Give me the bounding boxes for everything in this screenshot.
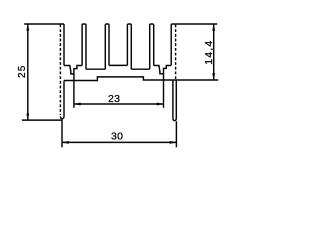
right screw-slot groove <box>154 66 172 74</box>
dim 23 extension line right <box>163 74 165 108</box>
right mounting foot <box>173 80 176 121</box>
svg-text:14,4: 14,4 <box>203 40 215 65</box>
channel floor 3 <box>131 68 149 70</box>
fin F4 <box>150 24 154 69</box>
dim 14.4 arrow up <box>212 24 215 31</box>
svg-text:30: 30 <box>111 131 123 143</box>
base bottom outline with raised middle <box>64 77 173 81</box>
fin F3 <box>127 24 131 69</box>
fin F1 <box>82 24 86 69</box>
svg-text:25: 25 <box>17 64 28 78</box>
dim 23 line <box>74 103 164 105</box>
dim 14.4 top extension line <box>175 23 217 25</box>
dim 30 line <box>62 141 176 143</box>
dim 14.4 arrow down <box>212 73 215 80</box>
dim 30 extension line right <box>175 121 177 147</box>
fin F5 (cut) <box>171 24 175 66</box>
dim 14.4 bottom extension line <box>173 79 218 81</box>
dim 25 top extension line / profile top-left <box>24 23 64 25</box>
left wall right edge <box>63 24 65 66</box>
fin F2 <box>105 24 109 69</box>
dim 30 extension line left <box>61 119 63 147</box>
left cut face (dashed) <box>59 25 61 116</box>
channel floor 2 <box>109 64 127 66</box>
right cut face (dashed) <box>175 25 177 81</box>
dim 23 arrow right <box>157 103 164 106</box>
dim 23 arrow left <box>74 103 81 106</box>
dim 30 arrow right <box>170 141 177 144</box>
dim 25 arrow down <box>27 114 30 121</box>
svg-text:23: 23 <box>108 93 120 105</box>
dim 25 bottom extension line <box>22 119 62 121</box>
dim 25 arrow up <box>27 24 30 31</box>
dim 25 line <box>27 24 29 120</box>
dim 14.4 line <box>213 24 215 80</box>
left mounting foot <box>60 81 64 119</box>
channel floor 1 <box>86 68 105 70</box>
dim 30 arrow left <box>62 141 69 144</box>
dim 23 extension line left <box>73 74 75 108</box>
left screw-slot groove <box>64 66 82 74</box>
